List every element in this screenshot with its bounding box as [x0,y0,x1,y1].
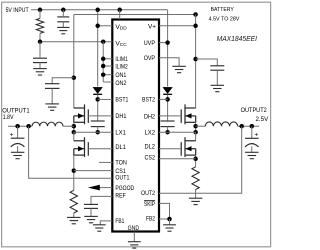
wire OUT2 sense line [159,126,242,193]
node 5V/VDD-column junction [95,8,100,13]
svg-text:REF: REF [115,193,126,200]
svg-text:UVP: UVP [144,40,156,47]
svg-text:OUT2: OUT2 [141,190,155,197]
node ON1 junction [101,72,106,77]
wire V+ pin connection [159,25,196,27]
node BST1 [95,97,100,102]
wire C2 top lead [17,126,19,138]
capacitor C8 (output2 electrolytic) [245,138,259,147]
wire L2 to OUTPUT2 terminal [238,125,260,127]
wire LX2 to Q4 drain [195,132,197,141]
svg-text:ILIM1: ILIM1 [115,56,128,63]
ground below C5 [45,104,59,110]
svg-text:BATTERY: BATTERY [211,7,234,13]
wire PGOOD pin connection [100,187,113,189]
svg-text:DL1: DL1 [115,144,126,151]
svg-text:CS2: CS2 [145,154,156,161]
wire C8 top lead [251,126,253,138]
capacitor C4 (battery bypass right) [210,66,224,70]
node LX1 junction [72,130,77,135]
ground below GND pin [128,242,141,248]
node CS1 junction [72,168,77,173]
svg-text:OUT1: OUT1 [115,175,129,182]
svg-text:SKIP: SKIP [144,201,155,208]
wire R1 top lead [39,10,41,19]
resistor R2 (current sense 1) [70,190,77,213]
ground below C2 [11,152,25,158]
svg-text:+: + [254,131,258,138]
node battery/V+ junction [193,24,198,29]
wire R2 bottom lead [73,213,75,217]
svg-text:ILIM2: ILIM2 [115,63,128,70]
wire C6 bottom lead [97,127,99,133]
wire OVP pin connection (to ground) [159,58,179,67]
svg-text:LX1: LX1 [115,130,126,137]
svg-text:V+: V+ [148,23,156,30]
wire C4 feed [196,59,218,66]
svg-text:4.5V TO 28V: 4.5V TO 28V [209,16,240,22]
node UVP junction [165,40,170,45]
node L2/Q2 junction [193,124,198,129]
node OUTPUT2/C8 junction [250,124,255,129]
node OUTPUT2/sense junction [239,124,244,129]
wire D1 cathode to BST1 node [97,94,99,121]
wire L1 to Q1 source [63,125,74,127]
wire 5V branch down right side (to D2 anode) [167,10,169,87]
wire GND pin lead [133,232,135,242]
wire battery rail left (down to Q1 drain) [73,15,75,109]
diode D2 (BST2 boost) [163,87,172,93]
node CS2 junction [193,157,198,162]
wire DH2 pin connection [159,115,181,117]
wire Q3 source to CS1 node [73,155,75,190]
svg-text:FB1: FB1 [115,218,124,225]
wire REF pin connection [91,196,112,204]
wire ON1 pin connection [103,74,112,76]
wire D2 cathode to BST2 node [167,94,169,121]
node OUTPUT1/C2 junction [15,124,20,129]
wire V+ top entry into IC [119,10,121,20]
wire C4 bottom lead [216,70,218,85]
svg-text:CC: CC [120,42,127,48]
wire Q2 source to LX2 [195,122,197,132]
node L1/Q1 junction [72,124,77,129]
ground below C1 [57,27,69,33]
node VCC/ILIM column junction [101,39,106,44]
wire OUTPUT1 terminal lead [8,125,32,127]
node 5V/V+ entry junction [117,8,122,13]
ground below C8 [245,152,258,158]
capacitor C2 (output1 electrolytic) [11,138,25,147]
svg-text:MAX1845EEI: MAX1845EEI [217,34,257,43]
wire battery rail right (down to Q2 drain) [195,15,197,109]
node VDD branch [95,24,100,29]
wire DL1 pin connection [88,148,112,150]
svg-text:DH2: DH2 [144,114,155,121]
transistor Q4 (low-side, OUT2) [181,137,196,157]
wire DH1 pin connection [88,115,112,117]
node ILIM1 junction [101,57,106,62]
wire C9 bottom lead [90,208,92,216]
wire FB2 ground lead [169,219,171,225]
svg-text:LX2: LX2 [145,130,156,137]
node LX2 junction [193,130,198,135]
wire TON stub [99,161,112,163]
wire LX1 pin connection [74,131,113,133]
wire Q4 source to CS2 node [195,155,197,167]
wire C1 top lead [62,10,64,17]
node VCC/R1/C3 junction [38,39,43,44]
ground below C9 [84,216,98,222]
wire R3 bottom lead [195,190,197,199]
wire C2 bottom lead [17,146,19,152]
svg-text:GND: GND [128,225,140,232]
wire 5V input rail (horizontal) [31,9,168,11]
transistor Q2 (high-side, OUT2) [181,104,196,124]
svg-text:FB2: FB2 [146,216,155,223]
wire ILIM1 pin connection [103,58,112,60]
svg-text:2.5V: 2.5V [256,117,269,123]
ground below R3 [189,198,203,204]
svg-text:BST1: BST1 [115,97,128,104]
svg-text:OUTPUT1: OUTPUT1 [2,107,30,114]
wire FB1 to ground [100,221,112,225]
wire CS2 pin connection [159,158,196,160]
svg-text:+: + [10,131,14,138]
wire C7 bottom lead [167,127,169,133]
node C6/LX1 junction [95,130,100,135]
wire C5 bottom lead [51,88,53,104]
node battery/feed junction [193,12,198,17]
capacitor C3 (VCC bypass) [33,58,47,62]
ground below C3 [33,69,47,75]
node battery/C4 junction [193,57,198,62]
wire C8 bottom lead [251,146,253,152]
arrow PGOOD (points left) [88,185,100,191]
node 5V/C1 junction [61,8,66,13]
wire SKIP to FB2 tie [159,203,170,219]
diode D1 (BST1 boost) [93,87,102,93]
wire Q1 source to LX1 [73,122,75,132]
wire ILIM2 pin connection [103,65,112,67]
svg-text:BST2: BST2 [142,97,155,104]
svg-text:ON2: ON2 [115,80,126,87]
svg-text:OVP: OVP [144,55,156,62]
capacitor C7 (BST2 boost cap) [161,121,175,127]
capacitor C6 (BST1 boost cap) [91,121,105,127]
wire CS1 pin connection [74,170,113,172]
svg-text:PGOOD: PGOOD [115,185,134,192]
node ILIM2 junction [101,64,106,69]
wire C3 top lead [39,42,41,59]
transistor Q1 (high-side, OUT1) [74,104,89,124]
node BST2 [165,97,170,102]
svg-text:5V INPUT: 5V INPUT [6,7,29,14]
wire R1 bottom lead [39,33,41,41]
inductor L2 [205,122,237,126]
ground below FB1 [93,225,106,231]
svg-text:DH1: DH1 [115,113,126,120]
wire DL2 pin connection [159,148,181,150]
ground below R2 [67,217,81,223]
svg-text:OUTPUT2: OUTPUT2 [241,107,267,114]
wire FB2 pin connection [159,218,170,220]
wire ON2 pin connection (corner) [103,81,112,83]
IC U1 MAX1845EEI package outline [112,20,159,232]
wire 5V branch down left (VDD/D1 column) [97,10,99,87]
ground below FB2 [163,225,176,231]
inductor L1 [32,122,63,126]
resistor R3 (current sense 2) [192,167,199,190]
wire LX1 to Q3 drain [73,132,75,141]
capacitor C5 (battery bypass left) [45,84,60,89]
wire C3 bottom lead [39,63,41,69]
wire BST1 pin connection [98,98,113,100]
wire battery feed (horizontal) [74,14,196,16]
wire C1 bottom lead [62,22,64,28]
node 5V/R1 junction [38,8,43,13]
node SKIP/FB2 junction [167,217,172,222]
ground below OVP [172,66,186,72]
svg-text:1.8V: 1.8V [3,115,14,121]
capacitor C1 (5V bypass) [57,17,69,22]
wire OUT1 sense line [29,126,113,178]
wire VCC line [40,41,112,43]
wire VDD pin connection [98,25,113,27]
transistor Q3 (low-side, OUT1) [74,137,89,157]
svg-text:ON1: ON1 [115,72,126,79]
svg-text:DD: DD [120,26,127,32]
svg-text:TON: TON [115,160,127,167]
wire UVP pin connection [159,42,168,44]
svg-text:DL2: DL2 [145,144,156,151]
resistor R1 (VCC filter) [36,18,43,33]
wire Q2 source to L2 [196,125,206,127]
ground below C4 [211,85,225,91]
wire C5 feed [52,78,74,84]
node battery/C5 junction [72,75,77,80]
wire BST2 pin connection [159,98,168,100]
node C7/LX2 junction [165,130,170,135]
capacitor C9 (REF bypass) [84,204,98,208]
wire LX2 pin connection [159,131,196,133]
wire ILIM/ON tie column [102,42,104,82]
node OUTPUT1/sense junction [26,124,31,129]
